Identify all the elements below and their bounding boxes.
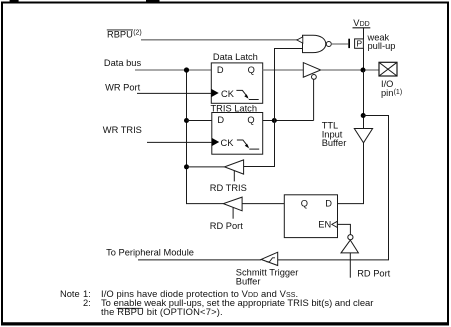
svg-text:D: D: [325, 198, 332, 208]
wire to peripheral module: [138, 259, 261, 261]
svg-text:Buffer: Buffer: [322, 138, 347, 148]
svg-text:D: D: [217, 65, 224, 75]
svg-text:WR Port: WR Port: [105, 83, 141, 93]
nand gate U3: [297, 35, 331, 52]
cropped title remnant marks: [10, 0, 19, 2]
wire schmitt tap right and down: [278, 116, 389, 260]
svg-text:RD Port: RD Port: [357, 269, 390, 279]
wire TTL buffer to latch D: [338, 143, 364, 204]
buffer U7 RD Port: [223, 197, 242, 219]
wire RD TRIS output to data bus: [187, 166, 225, 168]
note 1: [60, 288, 298, 299]
wire pin node down to TTL buffer: [363, 70, 365, 129]
svg-text:CK: CK: [221, 89, 235, 99]
wire TRIS node up to NAND input: [275, 49, 303, 121]
svg-text:Q: Q: [247, 115, 254, 125]
svg-text:2:: 2:: [83, 298, 91, 308]
note 2: [83, 297, 373, 317]
svg-text:Q: Q: [248, 65, 255, 75]
wire WR TRIS to TRIS Latch CK: [147, 141, 212, 143]
wire transistor drain to pin node: [363, 48, 365, 70]
label weak pull-up: [367, 32, 396, 51]
wire TRIS node down to RD TRIS buffer input: [244, 121, 275, 167]
svg-text:RBPU: RBPU: [107, 30, 133, 40]
svg-text:Buffer: Buffer: [236, 276, 261, 286]
node RBPU label: [107, 30, 142, 40]
latch U2 TRIS Latch: [211, 104, 263, 155]
junction schmitt tap: [361, 113, 366, 118]
buffer U9 RD Port enable inverter: [341, 235, 358, 278]
wire VDD to transistor: [363, 28, 365, 39]
svg-text:Note: Note: [60, 289, 80, 299]
label Schmitt Trigger Buffer: [236, 268, 299, 287]
wire output buffer to I/O pin: [321, 69, 379, 71]
wire TRIS D input: [187, 120, 212, 122]
wire data bus vertical: [187, 70, 224, 204]
junction data bus / D data latch: [184, 67, 189, 72]
svg-text:CK: CK: [221, 138, 235, 148]
svg-text:RD Port: RD Port: [210, 221, 243, 231]
buffer U4 output driver: [303, 63, 320, 80]
transistor Q1 weak pull-up P-MOSFET: [348, 39, 363, 49]
wire enable up to output buffer bubble: [313, 79, 315, 120]
latch U1 Data Latch: [211, 52, 262, 103]
wire TRIS Q / enable run: [263, 120, 314, 122]
pin J1 I/O pin: [379, 62, 397, 76]
wire NAND output to transistor gate: [331, 43, 348, 45]
svg-text:Q: Q: [301, 198, 308, 208]
svg-text:EN: EN: [318, 220, 331, 230]
svg-text:To Peripheral Module: To Peripheral Module: [106, 248, 194, 258]
junction TRIS Q node: [272, 118, 277, 123]
wire RBPU to NAND input: [141, 39, 298, 41]
junction data bus / RD TRIS output: [184, 164, 189, 169]
svg-text:P: P: [356, 39, 362, 49]
svg-text:D: D: [217, 115, 224, 125]
wire EN to inverter bubble: [338, 224, 351, 234]
wire RD Port buffer input from EN latch Q: [242, 203, 284, 205]
wire WR Port to Data Latch CK: [137, 92, 211, 94]
wire Data Latch Q to output buffer: [263, 69, 304, 71]
junction pin node: [361, 68, 366, 73]
buffer U6 RD TRIS: [225, 160, 244, 182]
svg-text:pin: pin: [381, 88, 393, 98]
svg-text:RD TRIS: RD TRIS: [210, 183, 247, 193]
label I/O pin: [381, 79, 402, 98]
svg-text:WR TRIS: WR TRIS: [103, 125, 142, 135]
power VDD: [353, 18, 371, 28]
svg-text:pull-up: pull-up: [368, 41, 396, 51]
buffer U5 TTL input buffer: [354, 129, 372, 143]
junction data bus / D tris latch: [184, 118, 189, 123]
svg-text:Data Latch: Data Latch: [213, 52, 258, 62]
svg-text:(1): (1): [394, 89, 403, 96]
wire data bus horizontal: [135, 69, 211, 71]
latch U8 input latch: [284, 195, 337, 238]
label TTL Input Buffer: [322, 121, 347, 149]
svg-text:Data bus: Data bus: [104, 58, 142, 68]
buffer U10 Schmitt trigger: [261, 252, 278, 265]
svg-text:DD: DD: [360, 21, 370, 28]
svg-text:(2): (2): [133, 30, 142, 37]
